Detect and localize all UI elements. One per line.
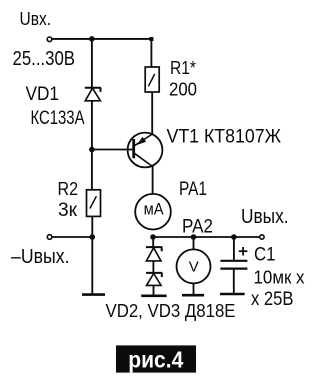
ground bar left (82, 293, 105, 296)
wire C1 top lead (233, 237, 235, 261)
wire diode chain bottom (153, 285, 155, 295)
svg-text:R1*: R1* (170, 57, 196, 78)
zener diode VD1 (85, 88, 101, 101)
wire left branch lower (91, 216, 93, 294)
node corner top-right (149, 37, 153, 41)
capacitor C1 (220, 261, 247, 269)
wire emitter lead (151, 92, 153, 135)
wire left branch upper (91, 39, 93, 88)
svg-text:VT1 КТ8107Ж: VT1 КТ8107Ж (167, 127, 282, 148)
svg-text:КС133А: КС133А (31, 108, 85, 129)
wire base (92, 149, 133, 151)
svg-text:Uвых.: Uвых. (241, 206, 289, 228)
resistor R2 (87, 190, 101, 217)
svg-text:мА: мА (144, 200, 165, 219)
svg-text:PA2: PA2 (182, 217, 213, 238)
svg-text:–Uвых.: –Uвых. (11, 246, 70, 268)
ground bar diode chain (141, 294, 166, 297)
svg-text:10мк х: 10мк х (254, 267, 306, 288)
wire collector lead (152, 167, 154, 195)
terminal output -Uвых (47, 235, 52, 240)
zener diode VD3 (146, 273, 162, 286)
caption рис.4 (116, 345, 196, 372)
svg-text:VD1: VD1 (26, 84, 60, 105)
ground bar C1 (220, 293, 245, 296)
svg-text:V: V (189, 258, 199, 275)
terminal input Uвх (47, 37, 52, 42)
terminal output Uвых (260, 235, 264, 239)
svg-text:3к: 3к (58, 200, 78, 221)
wire -Uвых lead (52, 236, 92, 238)
wire C1 bottom lead (233, 269, 235, 294)
junction base node (89, 147, 95, 153)
svg-text:Uвх.: Uвх. (20, 9, 52, 29)
svg-text:PA1: PA1 (179, 179, 207, 200)
wire between VD2 VD3 (152, 261, 154, 273)
polarity plus C1 (239, 247, 248, 256)
svg-text:VD2, VD3 Д818Е: VD2, VD3 Д818Е (106, 301, 236, 321)
wire diode chain top (152, 237, 154, 247)
svg-text:200: 200 (169, 80, 197, 100)
junction bus left (150, 234, 156, 240)
junction C1 tap (231, 234, 237, 240)
junction -Uвых node (90, 234, 96, 240)
ground bar PA2 (182, 294, 204, 297)
svg-text:25...30В: 25...30В (13, 48, 76, 70)
svg-text:х 25В: х 25В (251, 289, 294, 310)
transistor VT1 (128, 133, 163, 168)
svg-text:R2: R2 (58, 178, 79, 199)
svg-text:рис.4: рис.4 (128, 346, 183, 372)
wire PA2 bottom lead (193, 283, 195, 295)
junction top rail to VD1 branch (89, 36, 95, 42)
zener diode VD2 (146, 247, 162, 261)
wire PA2 top lead (193, 237, 195, 249)
resistor R1 (145, 67, 159, 92)
wire top rail (52, 38, 151, 40)
wire left branch middle (91, 101, 93, 190)
voltmeter PA2 (177, 249, 211, 283)
wire R1 top lead (150, 39, 152, 67)
svg-text:C1: C1 (254, 245, 276, 266)
ammeter PA1 (135, 194, 171, 230)
junction PA2 tap (191, 234, 197, 240)
wire output bus (153, 236, 260, 238)
